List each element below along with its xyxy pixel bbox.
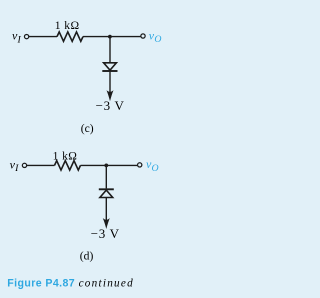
- diode cathode bar (d): [99, 188, 114, 190]
- output terminal (c): [141, 34, 145, 38]
- svg-text:1 kΩ: 1 kΩ: [55, 19, 80, 32]
- supply arrowhead (c): [107, 90, 114, 101]
- svg-text:1 kΩ: 1 kΩ: [53, 150, 78, 163]
- wire resistor to output terminal (d): [81, 164, 138, 166]
- output terminal (d): [138, 163, 142, 167]
- wire junction down to diode (d): [105, 165, 107, 188]
- junction node (c): [108, 35, 112, 39]
- svg-text:(d): (d): [80, 249, 94, 262]
- svg-text:−3 V: −3 V: [96, 98, 125, 113]
- input terminal (c): [24, 34, 28, 38]
- resistor R 1 kΩ (c): [57, 32, 83, 41]
- wire input to resistor (d): [27, 164, 55, 166]
- diode cathode bar (c): [102, 70, 117, 72]
- resistor R 1 kΩ (d): [55, 161, 81, 170]
- diode D (c) pointing down: [104, 63, 117, 70]
- wire input to resistor (c): [29, 36, 57, 38]
- supply arrowhead (d): [103, 218, 110, 229]
- junction node (d): [104, 164, 108, 168]
- background panel: [0, 0, 186, 298]
- svg-text:−3 V: −3 V: [91, 226, 120, 241]
- svg-text:Figure P4.87: Figure P4.87: [7, 277, 75, 289]
- svg-text:(c): (c): [81, 122, 94, 135]
- wire diode to supply arrow (c): [109, 72, 111, 95]
- wire resistor to output terminal (c): [83, 36, 141, 38]
- wire diode to supply arrow (d): [105, 198, 107, 223]
- svg-text:continued: continued: [79, 277, 134, 289]
- wire junction down to diode (c): [109, 37, 111, 63]
- input terminal (d): [22, 163, 26, 167]
- diode D (d) pointing up: [100, 190, 113, 197]
